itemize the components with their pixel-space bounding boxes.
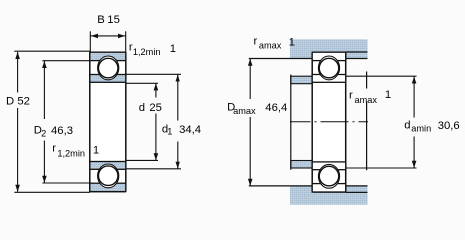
dimension Da arrow up — [248, 59, 253, 66]
dimension D2 line — [43, 61, 45, 183]
svg-text:15: 15 — [107, 14, 120, 26]
housing bottom shoulder line right — [346, 185, 368, 187]
centerline — [290, 121, 368, 123]
dimension D2 arrow up — [42, 61, 47, 68]
svg-text:d: d — [404, 120, 410, 132]
dimension D line — [17, 52, 19, 192]
bearing 1 ball top — [98, 58, 118, 78]
dimension d line — [155, 83, 157, 160]
svg-text:1,2min: 1,2min — [57, 148, 85, 158]
dimension d1 line — [177, 75, 179, 169]
bearing 2 groove pocket top — [318, 56, 339, 80]
dimension D extension line top — [14, 50, 90, 52]
svg-text:34,4: 34,4 — [179, 124, 201, 136]
bearing 2 outer ring bottom — [312, 184, 346, 192]
dimension d extension line bottom — [126, 159, 158, 161]
svg-text:B: B — [97, 14, 105, 26]
shaft shoulder bottom left — [291, 161, 312, 169]
svg-text:D: D — [6, 95, 14, 107]
dimension da arrow up — [412, 77, 417, 84]
svg-text:1: 1 — [289, 37, 295, 49]
svg-text:30,6: 30,6 — [438, 120, 460, 132]
housing top shoulder line right — [346, 58, 368, 60]
svg-text:46,4: 46,4 — [265, 102, 287, 114]
dimension da arrow down — [412, 161, 417, 168]
dimension Da arrow down — [248, 179, 253, 186]
housing top shoulder line left — [249, 58, 312, 60]
dimension D arrow down — [15, 185, 20, 192]
dimension d1 extension line bottom — [126, 168, 181, 170]
svg-text:d: d — [139, 102, 145, 114]
dimension d1 extension line top — [126, 73, 181, 75]
svg-text:r: r — [349, 90, 353, 102]
dimension D2 extension line top — [42, 60, 90, 62]
bearing 1 inner ring bottom — [90, 162, 126, 170]
svg-text:2: 2 — [41, 128, 46, 138]
bearing 1 ball bottom — [98, 166, 118, 186]
bearing 1 groove pocket top — [98, 56, 119, 80]
bearing 1 inner ring top — [90, 75, 126, 83]
svg-text:1: 1 — [93, 144, 99, 156]
bearing 1 groove pocket bottom — [98, 164, 119, 188]
dimension B line — [90, 35, 125, 37]
svg-text:amax: amax — [355, 95, 378, 105]
dimension D arrow up — [15, 52, 20, 59]
svg-text:r: r — [52, 142, 56, 154]
dimension Da line — [249, 59, 251, 186]
dimension d1 arrow up — [176, 75, 180, 82]
bearing 2 groove pocket bottom — [318, 164, 339, 188]
shaft section cut line right — [366, 72, 368, 171]
bearing 2 outline — [312, 52, 346, 192]
dimension d1 arrow down — [176, 162, 180, 169]
housing bottom shoulder line left — [249, 185, 312, 187]
housing bottom block — [290, 186, 368, 205]
bearing 2 inner ring bottom — [312, 162, 346, 170]
housing top bore line right — [346, 51, 368, 53]
bearing 2 outer ring top — [312, 52, 346, 60]
dimension B arrow right — [118, 34, 125, 39]
svg-text:25: 25 — [149, 102, 162, 114]
svg-text:1,2min: 1,2min — [133, 47, 161, 57]
dimension da extension line top — [346, 75, 417, 77]
svg-text:52: 52 — [17, 96, 30, 108]
svg-text:1: 1 — [167, 127, 172, 137]
dimension d arrow up — [154, 83, 159, 90]
bearing 2 ball top — [319, 58, 339, 78]
svg-text:amax: amax — [233, 106, 256, 116]
dimension d arrow down — [154, 153, 159, 160]
bearing 1 outer ring top — [90, 52, 126, 60]
dimension da extension line bottom — [346, 167, 417, 169]
dimension d extension line top — [126, 82, 158, 84]
bearing 1 outline — [90, 52, 126, 191]
svg-text:1: 1 — [170, 43, 176, 55]
dimension D2 extension line bottom — [42, 182, 90, 184]
housing bottom bore line right — [346, 191, 368, 193]
bearing 1 outer ring bottom — [90, 183, 126, 191]
shaft section cut line left — [290, 75, 292, 170]
dimension B extension line left — [89, 31, 91, 52]
svg-text:amin: amin — [411, 124, 431, 134]
svg-text:1: 1 — [385, 89, 391, 101]
dimension D2 arrow down — [42, 176, 47, 183]
svg-text:r: r — [254, 35, 258, 47]
dimension B extension line right — [125, 31, 127, 52]
housing top block — [290, 39, 368, 58]
dimension D extension line bottom — [14, 191, 90, 193]
dimension B arrow left — [91, 34, 98, 39]
bearing 2 ball bottom — [319, 166, 339, 186]
bearing 2 inner ring top — [312, 75, 346, 83]
dimension da line — [413, 77, 415, 168]
shaft shoulder top left — [291, 76, 312, 84]
svg-text:46,3: 46,3 — [51, 125, 73, 137]
svg-text:amax: amax — [259, 41, 282, 51]
